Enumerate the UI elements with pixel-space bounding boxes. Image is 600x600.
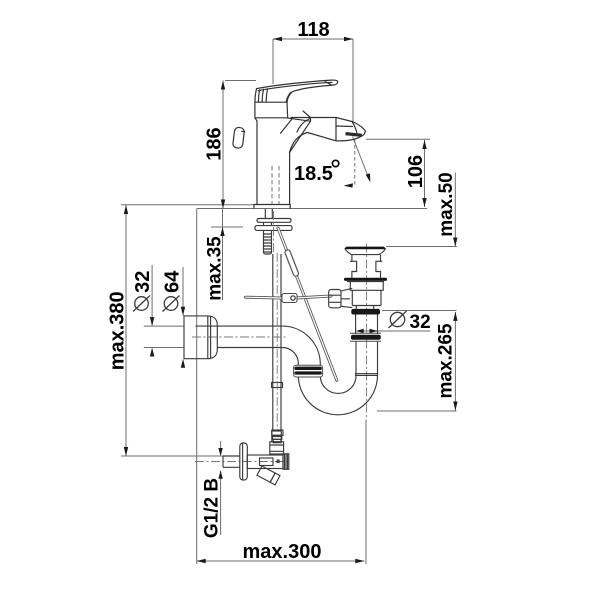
svg-text:18.5: 18.5 [294,163,333,185]
svg-text:32: 32 [410,312,431,333]
svg-text:186: 186 [204,127,226,160]
svg-text:max.300: max.300 [243,541,322,563]
svg-text:64: 64 [162,270,184,293]
svg-text:118: 118 [297,19,329,41]
svg-text:max.380: max.380 [107,291,129,370]
svg-text:max.265: max.265 [436,323,457,398]
svg-text:max.50: max.50 [436,172,457,236]
svg-text:max.35: max.35 [205,236,226,301]
svg-text:G1/2 B: G1/2 B [202,478,223,538]
svg-text:106: 106 [405,155,427,188]
svg-text:32: 32 [132,271,154,293]
